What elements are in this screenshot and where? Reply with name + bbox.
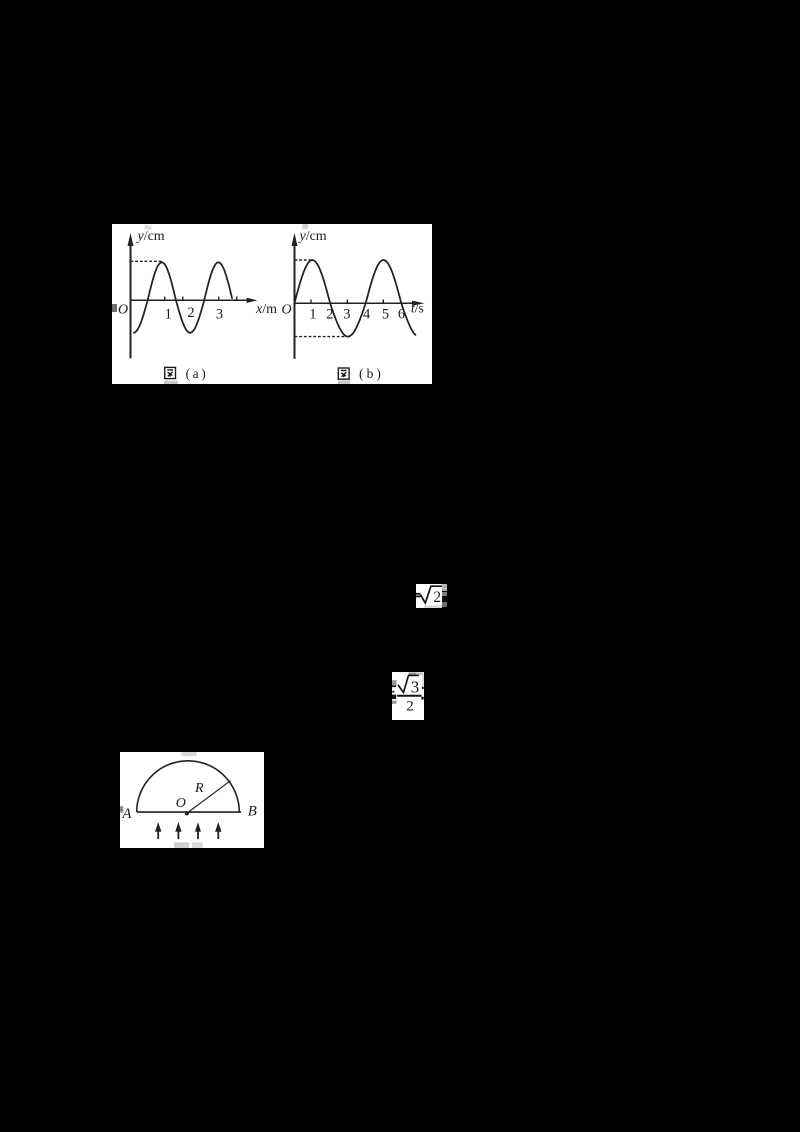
- svg-text:(b): (b): [359, 365, 384, 380]
- svg-text:3: 3: [343, 306, 350, 322]
- grey smudge bottom left: [174, 842, 189, 848]
- y-axis (b): [291, 233, 297, 359]
- radical sign: [398, 675, 419, 692]
- svg-text:y/cm: y/cm: [135, 228, 164, 243]
- equals sign: [414, 593, 421, 596]
- x-axis (b): [294, 300, 424, 305]
- figure block 2: semicircle on line AB (white panel): [120, 752, 264, 849]
- dashed trough line (b): [294, 335, 346, 337]
- grey smudge top: [181, 752, 196, 756]
- tick labels 1-6 (b): [309, 306, 405, 322]
- grey notch left edge: [120, 806, 123, 812]
- equation box sqrt(3)/2: [392, 672, 424, 720]
- ticks (a): [165, 296, 237, 300]
- svg-text:O: O: [281, 302, 291, 317]
- svg-text:y/cm: y/cm: [297, 228, 326, 243]
- grey square at left edge near O (a): [112, 304, 117, 312]
- ticks (b): [311, 299, 383, 303]
- svg-text:1: 1: [309, 306, 316, 322]
- grey smudge above y/cm (a): [144, 225, 151, 229]
- grey strip right of sqrt2 box: [442, 584, 447, 592]
- grey mark below caption (b): [338, 380, 350, 384]
- svg-text:t/s: t/s: [411, 300, 424, 315]
- grey smudge bottom right: [192, 842, 203, 848]
- tick labels 1 2 3 (a): [165, 305, 223, 322]
- black notch right lower: [422, 697, 424, 700]
- svg-text:2: 2: [187, 305, 194, 321]
- svg-text:O: O: [176, 796, 186, 811]
- svg-text:3: 3: [411, 677, 420, 696]
- svg-text:1: 1: [165, 306, 172, 322]
- svg-text:2: 2: [406, 698, 414, 714]
- grey patch left upper: [392, 680, 396, 685]
- center dot O: [185, 811, 189, 815]
- grey smudge above y/cm (b): [302, 224, 308, 229]
- wave curve (a): [133, 262, 232, 332]
- svg-text:O: O: [118, 302, 128, 317]
- svg-text:x/m: x/m: [255, 302, 277, 317]
- radical sign: [420, 586, 441, 603]
- grey patch left lower: [392, 700, 396, 703]
- caption glyph 图 (b): [338, 368, 349, 379]
- radius line R: [187, 780, 230, 812]
- fraction bar: [397, 695, 421, 697]
- equation box =sqrt(2): [416, 584, 442, 608]
- semicircle arc: [137, 760, 240, 811]
- arrow 1: [155, 822, 161, 839]
- y-axis (a): [127, 233, 133, 358]
- x-axis (a): [130, 297, 257, 302]
- figure block 1: wave graphs (white panel): [112, 224, 432, 384]
- black bar left lower: [392, 694, 396, 698]
- dashed peak line (a): [130, 260, 161, 262]
- baseline AB: [137, 811, 241, 813]
- svg-text:3: 3: [216, 306, 223, 322]
- black dot left: [392, 691, 394, 693]
- grey patch top mid: [409, 672, 417, 675]
- grey mark below caption (a): [164, 380, 178, 384]
- svg-text:2: 2: [433, 588, 441, 605]
- svg-text:5: 5: [382, 306, 389, 322]
- black notch right upper: [422, 687, 424, 689]
- grey patch top right: [417, 672, 424, 675]
- black bar left: [392, 685, 396, 687]
- light grey right column: [422, 675, 423, 687]
- caption glyph 图 (a): [165, 367, 176, 378]
- light grey bottom band: [424, 605, 442, 608]
- arrow 3: [195, 822, 201, 839]
- svg-text:A: A: [121, 805, 132, 821]
- arrow 4: [215, 822, 221, 839]
- dashed peak line (b): [294, 259, 311, 261]
- wave curve (b): [294, 260, 415, 337]
- black blob right of sqrt2 box: [442, 596, 447, 602]
- svg-text:B: B: [248, 803, 257, 819]
- svg-text:R: R: [194, 781, 204, 796]
- arrow 2: [175, 822, 181, 839]
- svg-text:(a): (a): [186, 365, 209, 380]
